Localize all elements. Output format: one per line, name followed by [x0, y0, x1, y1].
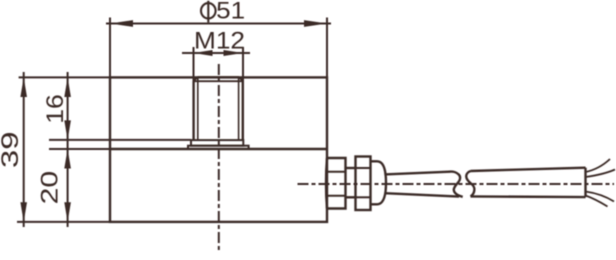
- cable right segment bottom: [471, 195, 586, 198]
- stud outer edge right: [242, 81, 244, 140]
- cable break right curl: [466, 171, 474, 197]
- wire 2: [586, 170, 616, 178]
- nut1 facet lines: [326, 171, 346, 173]
- cable right segment top: [471, 168, 586, 171]
- dim phi51 arrow left: [110, 20, 133, 27]
- gland dome cap: [371, 161, 387, 204]
- svg-text:51: 51: [216, 0, 245, 25]
- dim 20 arrow bottom: [64, 202, 71, 222]
- body mid step line: [110, 148, 327, 150]
- dim M12 line: [182, 52, 250, 54]
- dim 39 extension top: [19, 76, 110, 78]
- horizontal centerline: [298, 183, 615, 185]
- dim phi51 extension right: [326, 18, 328, 78]
- dim 39 line: [23, 72, 25, 227]
- dim phi51 arrow right: [304, 20, 327, 27]
- label phi51: [201, 0, 245, 25]
- dim phi51 extension left: [109, 18, 111, 78]
- gland neck: [346, 167, 356, 169]
- dim 16 line: [67, 72, 69, 149]
- dim 16 arrow top: [64, 77, 71, 97]
- stud chamfer line: [194, 80, 243, 82]
- wire 3: [586, 192, 615, 202]
- body (load cell main cylinder, side view): [110, 77, 327, 222]
- dim M12 extension left: [193, 47, 195, 81]
- dim 39 arrow top: [20, 77, 27, 97]
- cable break left curl: [449, 172, 463, 197]
- dim 39 extension bottom: [17, 221, 110, 223]
- wire 4: [586, 196, 608, 207]
- stud washer lower: [188, 146, 249, 149]
- stud M12 top face: [198, 76, 240, 78]
- stud washer upper: [191, 140, 243, 146]
- dim 20 arrow top: [64, 149, 71, 169]
- svg-text:16: 16: [42, 94, 69, 124]
- dim 20 extension line (merges into body step line): [49, 148, 110, 150]
- stud thread line left: [197, 77, 199, 140]
- dim 16 arrow bottom: [64, 120, 71, 139]
- svg-text:39: 39: [0, 132, 24, 169]
- dim M12 arrow right: [224, 50, 244, 56]
- dim 20 line: [67, 149, 69, 227]
- dim M12 extension right: [242, 47, 244, 81]
- cable end cap: [584, 168, 586, 197]
- gland nut1: [326, 158, 346, 209]
- svg-text:M12: M12: [194, 27, 245, 54]
- vertical centerline: [218, 64, 220, 252]
- dim M12 arrow left: [194, 50, 213, 56]
- svg-text:20: 20: [36, 171, 63, 205]
- gland nut2: [356, 157, 371, 211]
- dim 39 arrow bottom: [20, 202, 27, 222]
- dim 16 extension line: [49, 139, 191, 141]
- cable left segment bottom: [385, 193, 459, 196]
- stud thread line right: [238, 77, 240, 140]
- stud chamfer right: [239, 77, 243, 81]
- nut2 facet lines: [356, 167, 371, 169]
- cable left segment top: [384, 172, 449, 175]
- dim phi51 line: [106, 23, 331, 25]
- stud outer edge left: [192, 81, 194, 140]
- wire 1: [586, 159, 611, 172]
- stud chamfer left: [194, 77, 198, 81]
